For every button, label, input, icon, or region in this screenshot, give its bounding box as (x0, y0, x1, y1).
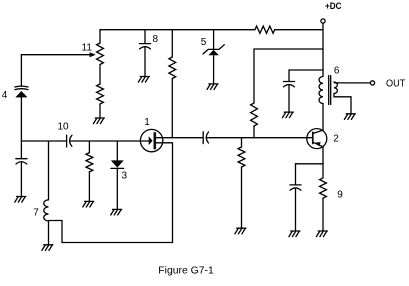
wire secondary to ground (334, 94, 351, 114)
svg-text:4: 4 (2, 90, 8, 101)
svg-text:5: 5 (201, 37, 207, 48)
ground (emitter resistor) (316, 231, 327, 237)
svg-text:10: 10 (57, 122, 69, 133)
transistor Q2 envelope (307, 129, 327, 149)
wire emitter resistor to ground (322, 198, 324, 230)
ground (secondary) (344, 114, 355, 120)
svg-text:1: 1 (144, 117, 150, 128)
wire gate resistor top (88, 141, 90, 153)
wire drain resistor down (171, 79, 173, 138)
wire left cap to ground (20, 162, 22, 196)
ground (under D3) (111, 209, 122, 215)
wire gate line right (70, 140, 149, 142)
wire emitter to bypass cap (296, 163, 324, 165)
wire emitter resistor top (322, 164, 324, 178)
transistor Q2 base bar (312, 132, 314, 145)
resistor (gate leak) (86, 153, 93, 172)
transformer T6 primary (319, 77, 323, 104)
wire diode3 top (116, 141, 118, 160)
JFET Q1 gate arrow (149, 136, 153, 145)
wire secondary to OUT (334, 82, 370, 84)
resistor (series, supply rail) (255, 26, 275, 33)
potentiometer R11 (97, 43, 104, 65)
svg-text:6: 6 (334, 66, 340, 77)
capacitor (coupling, series) (203, 132, 208, 144)
wire cap8 top (144, 30, 146, 44)
wire +DC vertical feed (322, 23, 324, 76)
ground (base shunt) (235, 228, 246, 234)
svg-text:7: 7 (33, 208, 39, 219)
svg-text:2: 2 (333, 133, 339, 144)
varactor diode D4 (15, 86, 28, 90)
wire pot top (99, 30, 101, 43)
wire base shunt to ground (241, 167, 243, 228)
svg-text:+DC: +DC (325, 1, 342, 12)
transistor Q2 emitter (313, 142, 323, 147)
wiper arrow of potentiometer 11 (21, 54, 91, 56)
resistor (base shunt) (238, 147, 245, 167)
wire varactor to gate line (20, 97, 22, 141)
wire bias resistor top (253, 49, 255, 103)
wire bias feed (254, 48, 323, 50)
resistor (drain load) (169, 57, 176, 79)
wire inductor to ground (48, 221, 50, 244)
wire coupling cap to base (207, 137, 313, 139)
zener diode D5 (203, 45, 224, 54)
wire base shunt resistor top (241, 138, 243, 147)
capacitor C8 (139, 44, 150, 49)
svg-text:8: 8 (153, 34, 159, 45)
wire decoupling branch (289, 70, 323, 81)
wire bypass cap to ground (295, 188, 297, 230)
svg-text:OUT: OUT (386, 78, 405, 89)
svg-text:3: 3 (122, 171, 128, 182)
diode D3 (111, 160, 124, 167)
JFET Q1 source lead (156, 142, 173, 144)
wire bypass cap stem (295, 164, 297, 185)
wire zener top (213, 30, 215, 50)
JFET Q1 envelope (140, 129, 162, 151)
svg-text:9: 9 (337, 190, 343, 201)
ground (decoupling) (282, 112, 293, 118)
wire decoupling cap to ground (288, 85, 290, 112)
wire wiper corner down (20, 55, 22, 86)
wire pot to lower resistor (99, 65, 101, 85)
ground (under C8) (138, 77, 149, 83)
wire emitter down (322, 147, 324, 164)
ground (tank shunt cap) (15, 197, 26, 203)
wire resistor to ground (99, 104, 101, 117)
ground (bypass cap) (289, 231, 300, 237)
JFET Q1 channel bar (154, 132, 157, 149)
capacitor C10 (series) (67, 135, 72, 147)
capacitor (tank shunt) (16, 159, 27, 164)
wire top supply rail (100, 29, 323, 31)
resistor R9 (320, 178, 327, 198)
+DC terminal (321, 19, 325, 23)
wire drain line (156, 137, 203, 139)
inductor L7 (44, 200, 49, 221)
resistor (below pot 11) (97, 84, 104, 104)
ground (pot chain) (93, 118, 104, 124)
wire zener to ground (213, 55, 215, 83)
svg-text:Figure G7-1: Figure G7-1 (158, 265, 214, 276)
capacitor (emitter bypass) (290, 185, 301, 190)
resistor (base bias) (251, 103, 258, 126)
wire gate line left (21, 140, 66, 142)
wire cap8 to ground (144, 47, 146, 76)
ground (gate leak) (83, 201, 94, 207)
wire gate resistor to ground (88, 172, 90, 201)
wire diode3 to ground (116, 168, 118, 208)
transformer T6 secondary (334, 82, 337, 94)
wire left cap stem (20, 141, 22, 159)
ground (under L7) (42, 245, 53, 251)
wire primary to collector (322, 104, 324, 131)
svg-text:11: 11 (82, 43, 93, 54)
OUT terminal (370, 81, 374, 85)
transistor Q2 collector (313, 130, 323, 133)
ground (under D5) (207, 84, 218, 90)
wire rail to drain resistor (171, 30, 173, 57)
wire tank branch down (48, 141, 50, 200)
wire bias resistor bottom (253, 126, 255, 138)
transformer T6 core (329, 76, 331, 105)
wire inductor tap feedback (49, 143, 173, 243)
capacitor (decoupling) (283, 82, 294, 87)
